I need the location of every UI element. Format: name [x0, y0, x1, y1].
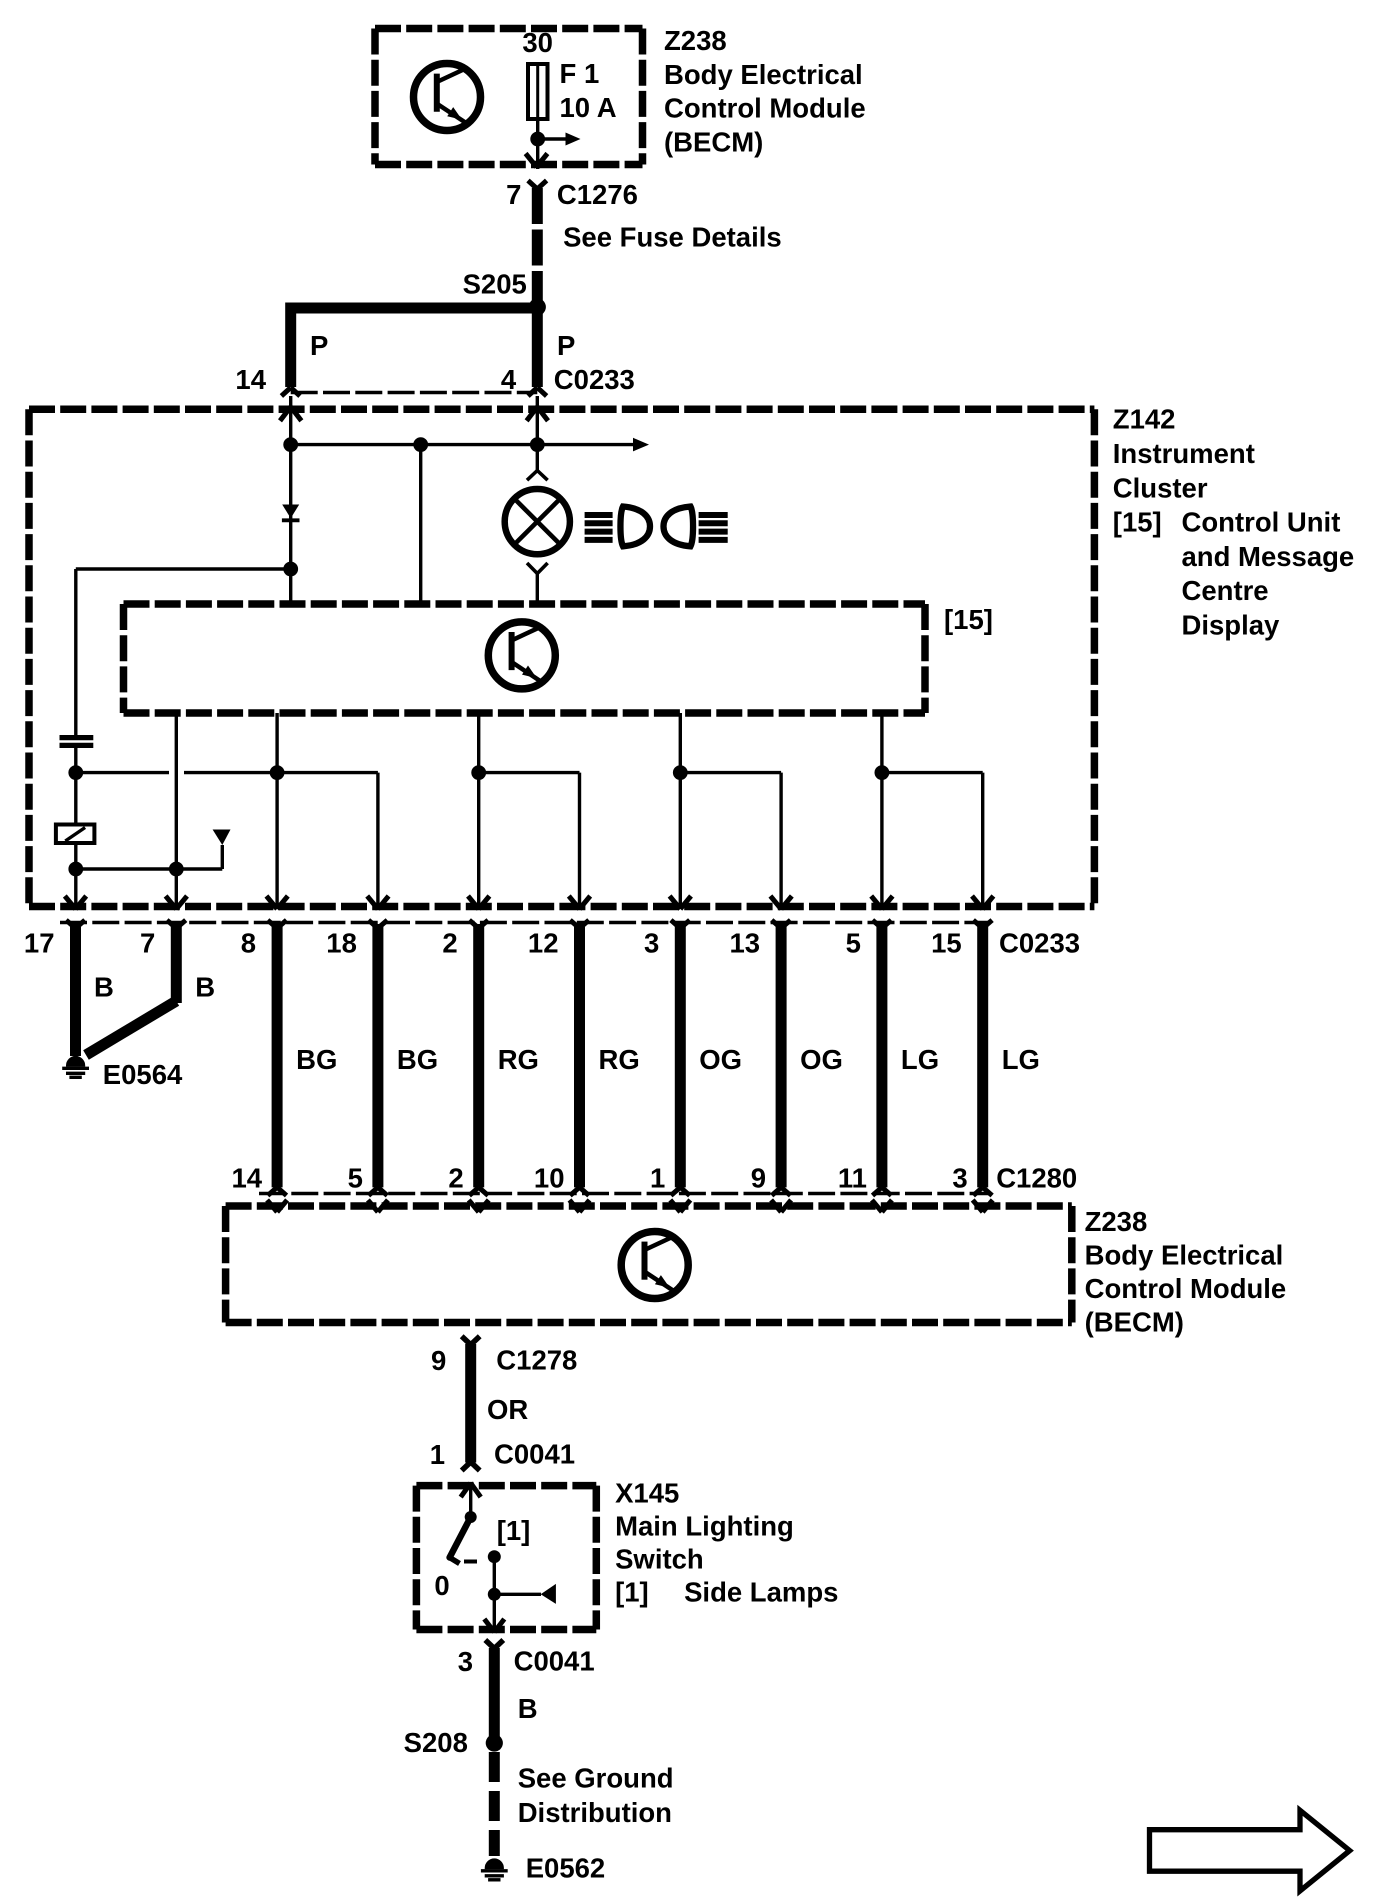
svg-text:E0564: E0564	[103, 1059, 183, 1090]
svg-text:C1280: C1280	[996, 1163, 1077, 1194]
svg-text:14: 14	[232, 1163, 263, 1194]
svg-text:7: 7	[506, 179, 521, 210]
svg-text:9: 9	[751, 1163, 766, 1194]
svg-text:4: 4	[501, 364, 517, 395]
svg-text:P: P	[310, 330, 328, 361]
svg-text:E0562: E0562	[526, 1852, 606, 1883]
svg-text:Instrument: Instrument	[1113, 438, 1255, 469]
svg-text:C0041: C0041	[494, 1439, 575, 1470]
svg-text:LG: LG	[1002, 1044, 1040, 1075]
svg-text:1: 1	[430, 1439, 445, 1470]
svg-text:OR: OR	[487, 1394, 528, 1425]
svg-text:B: B	[94, 972, 114, 1003]
svg-text:[15]: [15]	[1113, 507, 1162, 538]
svg-text:11: 11	[838, 1163, 867, 1194]
svg-text:LG: LG	[901, 1044, 939, 1075]
svg-text:Display: Display	[1182, 610, 1281, 641]
svg-text:F 1: F 1	[560, 58, 600, 89]
svg-text:RG: RG	[498, 1044, 539, 1075]
svg-text:B: B	[195, 972, 215, 1003]
svg-text:7: 7	[140, 928, 155, 959]
svg-text:Main Lighting: Main Lighting	[615, 1511, 794, 1542]
svg-text:X145: X145	[615, 1478, 679, 1509]
svg-text:See Fuse Details: See Fuse Details	[563, 221, 782, 252]
svg-text:2: 2	[442, 928, 457, 959]
svg-text:RG: RG	[599, 1044, 640, 1075]
svg-text:C0233: C0233	[999, 928, 1080, 959]
svg-text:(BECM): (BECM)	[664, 126, 763, 157]
svg-text:Switch: Switch	[615, 1544, 704, 1575]
svg-text:C1278: C1278	[496, 1345, 577, 1376]
svg-text:Side Lamps: Side Lamps	[684, 1577, 838, 1608]
svg-text:OG: OG	[800, 1044, 843, 1075]
svg-text:9: 9	[431, 1345, 446, 1376]
svg-text:(BECM): (BECM)	[1085, 1307, 1184, 1338]
svg-text:0: 0	[434, 1570, 449, 1601]
svg-text:C0041: C0041	[514, 1645, 595, 1676]
svg-text:C1276: C1276	[557, 179, 638, 210]
svg-text:C0233: C0233	[554, 364, 635, 395]
svg-text:10: 10	[534, 1163, 565, 1194]
svg-text:Cluster: Cluster	[1113, 472, 1208, 503]
svg-text:30: 30	[522, 27, 553, 58]
svg-text:13: 13	[730, 928, 761, 959]
svg-text:[1]: [1]	[615, 1577, 649, 1608]
svg-text:2: 2	[448, 1163, 463, 1194]
svg-text:BG: BG	[296, 1044, 337, 1075]
svg-text:5: 5	[846, 928, 861, 959]
svg-text:18: 18	[326, 928, 357, 959]
svg-text:[15]: [15]	[944, 604, 993, 635]
svg-text:1: 1	[650, 1163, 665, 1194]
svg-text:Control Module: Control Module	[1085, 1273, 1287, 1304]
svg-text:Z238: Z238	[1085, 1206, 1148, 1237]
svg-text:3: 3	[644, 928, 659, 959]
svg-text:OG: OG	[699, 1044, 742, 1075]
svg-text:3: 3	[458, 1646, 473, 1677]
svg-text:P: P	[557, 330, 575, 361]
svg-text:B: B	[518, 1693, 538, 1724]
svg-text:[1]: [1]	[497, 1515, 531, 1546]
svg-text:10 A: 10 A	[560, 92, 617, 123]
svg-text:15: 15	[931, 928, 962, 959]
svg-text:Body Electrical: Body Electrical	[1085, 1240, 1284, 1271]
svg-text:See Ground: See Ground	[518, 1763, 674, 1794]
svg-text:S208: S208	[404, 1727, 468, 1758]
svg-text:and Message: and Message	[1182, 541, 1355, 572]
svg-text:Control Unit: Control Unit	[1182, 507, 1341, 538]
svg-text:8: 8	[241, 928, 256, 959]
svg-text:17: 17	[24, 928, 55, 959]
svg-text:Control Module: Control Module	[664, 93, 866, 124]
svg-text:Z142: Z142	[1113, 404, 1176, 435]
svg-text:S205: S205	[463, 268, 527, 299]
svg-text:14: 14	[235, 364, 266, 395]
svg-text:Distribution: Distribution	[518, 1797, 672, 1828]
svg-text:5: 5	[348, 1163, 363, 1194]
svg-text:BG: BG	[397, 1044, 438, 1075]
svg-text:Centre: Centre	[1182, 575, 1269, 606]
svg-text:Z238: Z238	[664, 25, 727, 56]
svg-text:Body Electrical: Body Electrical	[664, 59, 863, 90]
svg-text:12: 12	[528, 928, 559, 959]
svg-text:3: 3	[952, 1163, 967, 1194]
